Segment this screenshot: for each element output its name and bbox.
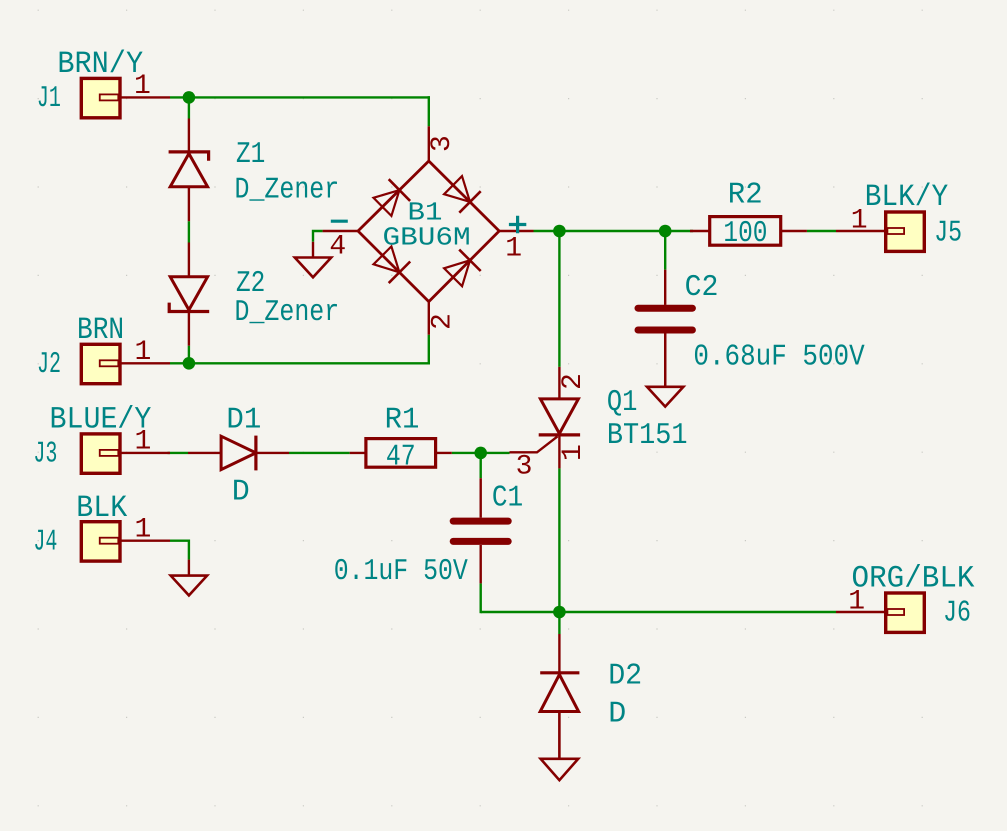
svg-text:0.68uF 500V: 0.68uF 500V bbox=[693, 341, 864, 375]
wire bridge bottom corner up to pin 2 bbox=[428, 335, 430, 365]
svg-text:D1: D1 bbox=[226, 403, 261, 437]
resistor R2 bbox=[690, 217, 807, 246]
wire J1 to bridge top corner bbox=[170, 96, 430, 98]
B1 internal diode top-right bbox=[444, 176, 481, 213]
svg-text:1: 1 bbox=[135, 514, 152, 545]
wire junction E down to C1 bbox=[480, 453, 482, 478]
ground at J4 bbox=[171, 560, 207, 596]
junction E (gate net / C1) bbox=[474, 447, 487, 460]
connector J6 (ORG/BLK) bbox=[886, 593, 925, 632]
connector J1 (BRN/Y) bbox=[81, 78, 120, 117]
svg-text:D: D bbox=[232, 476, 250, 510]
wire junction C down to Q1 anode bbox=[558, 231, 560, 367]
B1 internal diode top-left bbox=[374, 179, 411, 216]
svg-text:Q1: Q1 bbox=[607, 386, 638, 420]
svg-text:BLUE/Y: BLUE/Y bbox=[50, 403, 152, 438]
svg-text:3: 3 bbox=[427, 135, 458, 152]
wire junction A to Z1 bbox=[188, 97, 190, 118]
bridge rectifier B1 diamond body bbox=[358, 161, 499, 302]
capacitor C2 bbox=[638, 270, 692, 387]
zener diode Z1 bbox=[169, 119, 209, 222]
svg-text:J5: J5 bbox=[934, 216, 962, 250]
svg-text:J2: J2 bbox=[37, 348, 61, 382]
svg-text:J1: J1 bbox=[37, 82, 61, 116]
svg-text:3: 3 bbox=[516, 452, 533, 483]
diode D1 bbox=[188, 436, 289, 471]
svg-text:GBU6M: GBU6M bbox=[383, 223, 471, 253]
B1 pin 4 (minus left) bbox=[323, 230, 358, 232]
svg-text:ORG/BLK: ORG/BLK bbox=[852, 561, 975, 596]
B1 internal diode bottom-left bbox=[374, 246, 411, 283]
diode D2 bbox=[540, 634, 579, 759]
B1 minus sign bbox=[331, 220, 348, 223]
svg-text:D_Zener: D_Zener bbox=[235, 296, 340, 330]
wire bottom row C1 to J6 bbox=[481, 611, 836, 613]
svg-text:D_Zener: D_Zener bbox=[235, 173, 340, 207]
ground below C2 bbox=[647, 334, 683, 407]
junction D (main net / C2) bbox=[659, 225, 672, 238]
B1 plus sign bbox=[509, 216, 526, 233]
svg-text:J6: J6 bbox=[943, 597, 971, 631]
thyristor Q1 BT151 bbox=[510, 367, 581, 469]
wire D1 to R1 bbox=[289, 452, 350, 454]
wire Z1 to Z2 bbox=[188, 221, 190, 242]
svg-text:1: 1 bbox=[505, 233, 522, 264]
junction F (cathode net bottom) bbox=[553, 606, 566, 619]
capacitor C1 bbox=[453, 478, 508, 583]
ground below D2 bbox=[541, 712, 579, 781]
wire main net bridge pin1 to R2 bbox=[534, 230, 694, 232]
wire J4 to ground bbox=[170, 541, 189, 560]
svg-text:J3: J3 bbox=[33, 438, 57, 472]
junction C (main net / Q1 anode) bbox=[553, 225, 566, 238]
svg-text:100: 100 bbox=[723, 217, 767, 251]
svg-text:C1: C1 bbox=[492, 481, 523, 515]
svg-text:R2: R2 bbox=[728, 179, 763, 213]
resistor R1 bbox=[350, 439, 452, 468]
svg-text:BRN/Y: BRN/Y bbox=[57, 47, 143, 82]
B1 pin 1 (plus right) bbox=[499, 230, 533, 232]
wire J2 row bbox=[170, 362, 430, 364]
wire R1 to Q1 gate bbox=[452, 452, 510, 454]
svg-text:2: 2 bbox=[558, 373, 589, 390]
zener diode Z2 bbox=[169, 243, 209, 346]
svg-text:1: 1 bbox=[558, 444, 589, 461]
connector J5 (BLK/Y) bbox=[886, 212, 925, 251]
connector J4 (BLK) bbox=[81, 522, 120, 561]
wire junction D down to C2 bbox=[664, 231, 666, 270]
B1 internal diode bottom-right bbox=[444, 250, 481, 287]
svg-text:D: D bbox=[608, 698, 626, 732]
B1 pin 3 (AC top) bbox=[428, 126, 430, 161]
svg-text:1: 1 bbox=[135, 337, 152, 368]
svg-text:Z1: Z1 bbox=[236, 138, 265, 172]
svg-text:D2: D2 bbox=[608, 659, 642, 693]
wire bridge pin 4 to ground stub bbox=[313, 231, 323, 242]
junction A (J1/Z1 net) bbox=[183, 91, 196, 104]
svg-text:C2: C2 bbox=[685, 271, 719, 305]
svg-text:2: 2 bbox=[427, 313, 458, 330]
connector J2 (BRN) bbox=[81, 344, 120, 383]
connector J3 (BLUE/Y) bbox=[81, 434, 120, 473]
svg-text:BRN: BRN bbox=[77, 313, 124, 348]
svg-text:0.1uF 50V: 0.1uF 50V bbox=[334, 555, 468, 589]
svg-text:BT151: BT151 bbox=[607, 419, 688, 453]
svg-text:BLK/Y: BLK/Y bbox=[865, 180, 949, 215]
wire bridge top corner down to pin 3 bbox=[428, 96, 430, 126]
wire Z2 to junction B bbox=[188, 346, 190, 364]
svg-text:BLK: BLK bbox=[76, 491, 127, 526]
wire C1 bottom leg bbox=[480, 583, 482, 613]
svg-text:J4: J4 bbox=[33, 525, 57, 559]
ground at bridge pin 4 bbox=[295, 242, 331, 277]
wire Q1 cathode down through junction F to D2 bbox=[558, 468, 560, 634]
svg-text:R1: R1 bbox=[385, 403, 420, 437]
wire R2 to J5 bbox=[807, 230, 836, 232]
svg-text:47: 47 bbox=[386, 441, 416, 475]
B1 pin 2 (AC bottom) bbox=[428, 302, 430, 335]
wire J3 to D1 bbox=[168, 452, 189, 454]
junction B (J2/Z2 net) bbox=[183, 357, 196, 370]
